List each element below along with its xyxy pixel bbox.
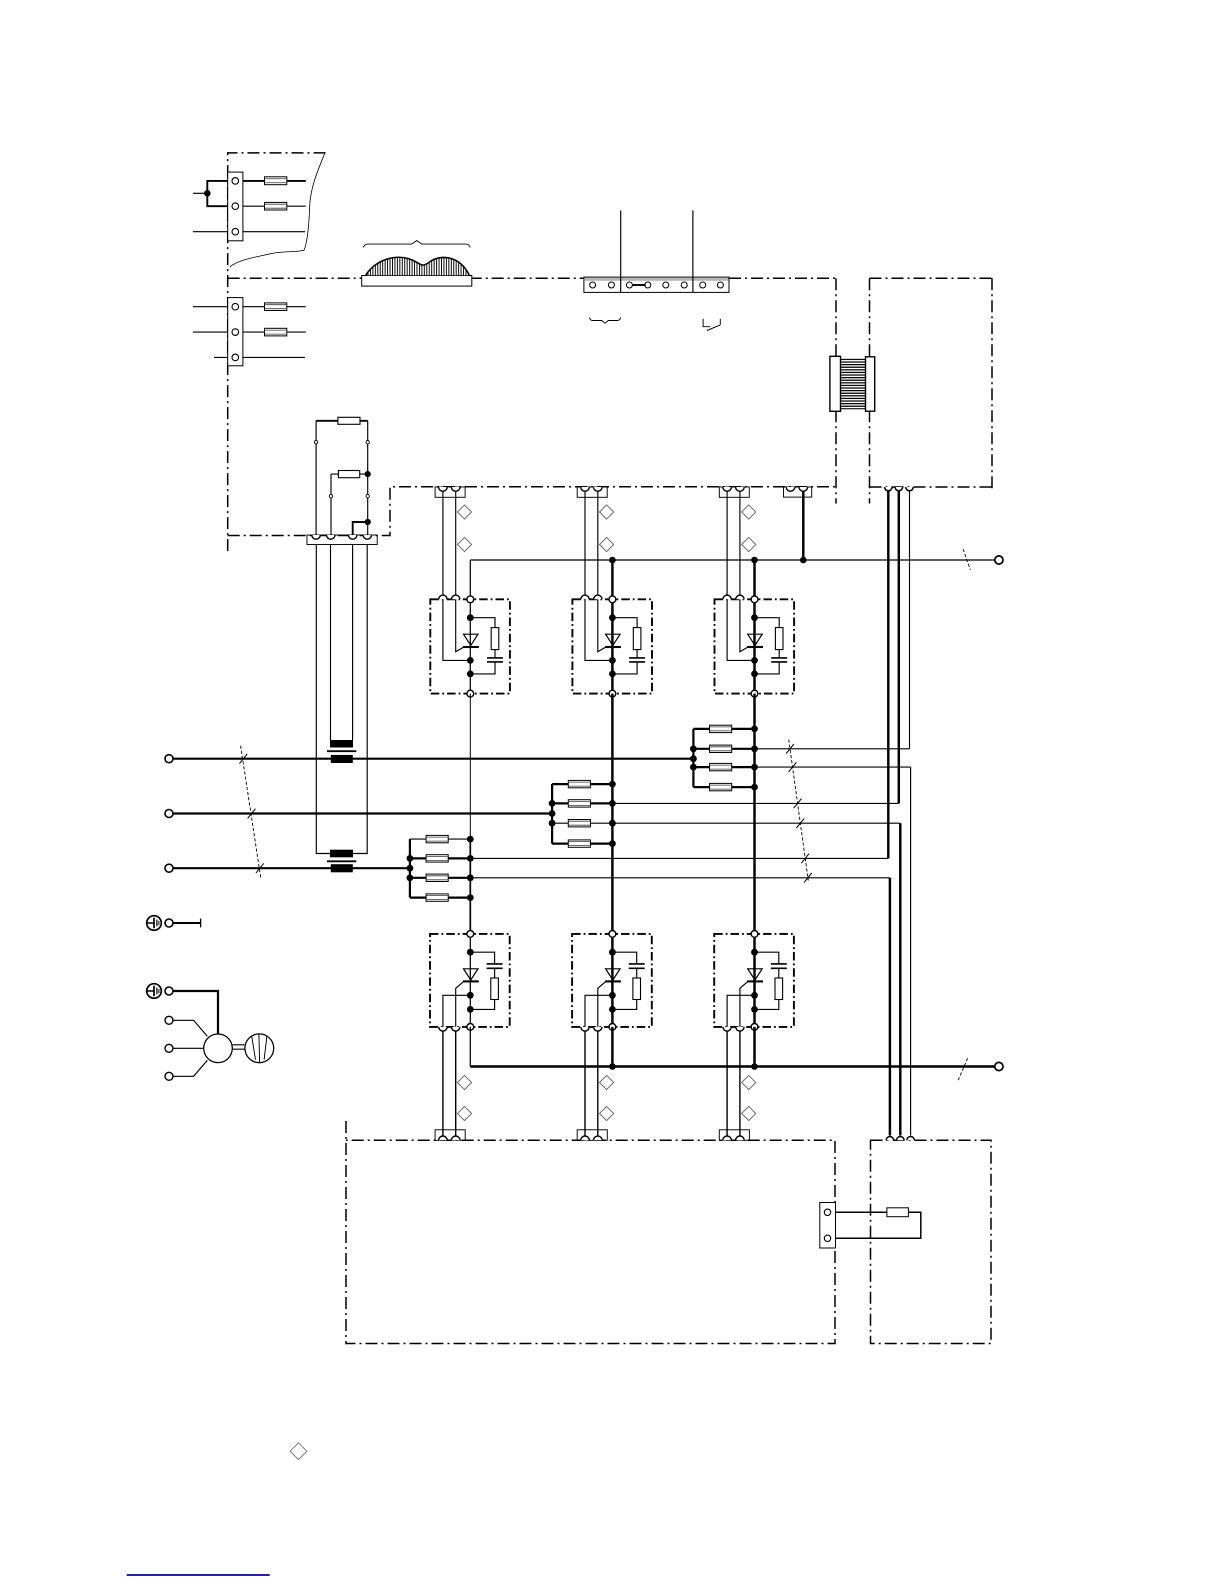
terminal X2:1 <box>590 282 596 288</box>
terminal X2:2 <box>608 282 614 288</box>
contact circle d <box>366 494 369 497</box>
motor terminal b <box>165 1044 173 1052</box>
parallel fuse row 3 wire <box>552 822 613 824</box>
gate lead pin1 down to module V2 <box>584 491 586 595</box>
marker diamond lower <box>600 537 614 551</box>
marker diamond lower-section upper <box>742 1075 756 1089</box>
blue reference line <box>127 1574 270 1576</box>
marker diamond lower-section upper <box>457 1075 471 1089</box>
junction dot rail row2 <box>407 855 414 862</box>
fuse group left rail <box>692 729 694 787</box>
thyristor V symbol <box>748 634 763 645</box>
wire stub into dot <box>193 192 207 194</box>
terminal strip X2 gray top band <box>584 278 728 281</box>
terminal C1+ <box>995 556 1003 564</box>
module pin contact 1 <box>439 595 447 599</box>
connector X21 pin 2 <box>451 1136 460 1140</box>
parallel fuse row 1 wire <box>552 783 613 785</box>
module pin contact 2 <box>736 595 744 599</box>
junction dot snubber return <box>751 671 758 678</box>
cathode aux return lower <box>443 995 470 1027</box>
module pin contact 2 <box>594 595 602 599</box>
bus wire G2 row3 down to X16 <box>899 823 901 1135</box>
PE wire to motor <box>173 991 218 1034</box>
wire CT p2 down <box>330 545 332 740</box>
contact symbol below X2 <box>703 319 720 331</box>
gate lead pin1 down to module V3 <box>726 491 728 595</box>
wire capacitor to resistor <box>778 968 780 978</box>
junction dot rail row2 <box>690 745 697 752</box>
junction dot top branch <box>467 949 474 956</box>
connector X22 housing lower <box>577 1130 607 1141</box>
thyristor cathode bar lower <box>747 980 763 982</box>
junction dot cathode aux <box>467 657 474 664</box>
thyristor V symbol lower <box>606 969 621 980</box>
junction dot snubber return lower <box>609 1006 616 1013</box>
gate lead diagonal lower <box>740 982 748 1027</box>
connector X22 pin 1 <box>581 1136 590 1140</box>
terminal 1U1 <box>165 755 173 763</box>
wire capacitor to resistor <box>636 968 638 978</box>
DC bus lead from X14 to positive rail <box>802 491 804 560</box>
cathode aux return lower <box>727 995 754 1027</box>
snubber capacitor <box>487 657 503 659</box>
resistor R1 <box>338 417 360 424</box>
snubber resistor <box>633 628 641 650</box>
wire L3 through X1 <box>193 231 305 233</box>
enclosure A5 bottom-right cabinet <box>871 1140 992 1343</box>
gate lead pin1 down to X16 <box>584 1031 586 1137</box>
marker diamond upper <box>457 505 471 519</box>
connector X4 pin 4 <box>363 535 371 539</box>
gate lead pin1 down to X16 <box>726 1031 728 1137</box>
terminal D1- <box>995 1062 1003 1070</box>
sense line row3 to right bus <box>470 877 890 879</box>
wire L1 to fuse F1 <box>243 180 306 182</box>
module cathode terminal circle lower <box>609 1024 616 1031</box>
junction dot rail row3 <box>549 820 556 827</box>
cable clamp symbol below X2 <box>589 317 620 323</box>
snubber resistor <box>775 628 783 650</box>
marker diamond lower <box>742 537 756 551</box>
gate lead pin2 down to X16 <box>597 1031 599 1137</box>
connector X16 pins (3-pole) <box>886 1137 894 1141</box>
junction dot cathode aux <box>609 657 616 664</box>
anode feed from DC rail <box>611 560 613 599</box>
junction dot anode branch <box>467 614 474 621</box>
thyristor V symbol <box>464 634 479 645</box>
motor M circle <box>204 1034 233 1063</box>
junction dot center row2 <box>467 855 474 862</box>
snubber branch wire to resistor <box>470 618 495 628</box>
gate lead diagonal <box>598 599 606 652</box>
junction dot V3 anode rail <box>751 557 758 564</box>
enclosure A2 bottom stepped border <box>228 487 836 536</box>
enclosure A2 top border right of strip <box>729 277 836 279</box>
fuse row 1 <box>426 835 448 842</box>
marker diamond lower-section lower <box>742 1106 756 1120</box>
transformer T5 hatched winding <box>841 358 865 409</box>
DC positive rail wire <box>470 559 995 561</box>
wire L1 feed with loop <box>207 181 227 206</box>
resistor R1 leads <box>316 420 368 422</box>
junction dot rail phase entry <box>690 755 697 762</box>
motor terminal c <box>165 1072 173 1080</box>
module anode terminal circle lower <box>609 931 616 938</box>
wire V5 cathode to negative rail <box>611 1027 613 1067</box>
parallel fuse row 2 wire <box>552 802 613 804</box>
busbar hatched hump <box>366 257 470 275</box>
junction dot rail row2 <box>549 800 556 807</box>
wire CT p3 down <box>352 545 354 740</box>
center line below group <box>469 898 471 934</box>
connector X13 pin 1 <box>723 487 732 491</box>
gate lead pin1 down to X16 <box>442 1031 444 1137</box>
module center line lower <box>611 934 613 1027</box>
wire capacitor return <box>470 662 495 674</box>
junction dot anode branch <box>751 614 758 621</box>
enclosure A3 bottom border with connector line <box>870 486 993 488</box>
module cathode terminal circle <box>751 690 758 697</box>
snubber branch to capacitor <box>470 952 494 964</box>
bus wire G1 row3 down to X16 <box>889 878 891 1136</box>
marker diamond lower-section lower <box>600 1106 614 1120</box>
wire resistor return lower <box>470 1000 494 1010</box>
CT T1 core line <box>327 750 356 752</box>
cathode aux return lead <box>443 599 470 660</box>
module anode terminal circle <box>751 596 758 603</box>
sense line row2 to right bus <box>612 802 898 804</box>
module anode terminal circle lower <box>751 931 758 938</box>
fuse group right rail <box>611 784 613 844</box>
snubber branch wire to resistor <box>612 618 637 628</box>
thyristor cathode bar <box>463 646 479 648</box>
junction dot snubber return lower <box>467 1006 474 1013</box>
tacho circle <box>245 1034 274 1063</box>
snubber resistor lower <box>491 978 499 1000</box>
wire CT p4 down with elbow <box>353 545 367 854</box>
wire CT p1 down with elbow <box>316 545 330 854</box>
snubber capacitor lower <box>487 963 503 965</box>
junction dot X14 lead <box>800 557 807 564</box>
junction dot center row3 <box>751 764 758 771</box>
lone marker diamond <box>290 1443 307 1460</box>
connector X14 pin 2 <box>799 487 808 491</box>
cable tick <box>796 818 804 828</box>
phase wire 1U1 <box>173 758 693 760</box>
sense line row2 to right bus <box>755 748 910 750</box>
PE bonding wire 1 <box>173 922 201 924</box>
PE terminal 1 <box>165 919 173 927</box>
connector X4 pin 2 <box>327 535 335 539</box>
parallel fuse row 3 wire <box>693 766 754 768</box>
connector X11 pin 1 <box>439 487 448 491</box>
transformer T5 left plate <box>830 356 841 411</box>
cable tick <box>786 744 794 754</box>
cable break slash at D1- <box>958 1058 967 1080</box>
enclosure A2 converter cabinet top border <box>228 277 584 279</box>
parallel fuse row 2 wire <box>410 857 471 859</box>
PE symbol 2 <box>147 984 162 999</box>
fuse row 4 <box>568 840 590 847</box>
junction dot V5 negative rail <box>609 1063 616 1070</box>
snubber capacitor lower <box>629 963 645 965</box>
snubber capacitor <box>771 657 787 659</box>
thyristor module box <box>572 599 652 693</box>
center line above group <box>469 694 471 840</box>
fuse group right rail <box>753 729 755 787</box>
junction dot R2-R1 right rail <box>365 471 371 477</box>
thyristor cathode bar lower <box>463 980 479 982</box>
motor wire c <box>173 1060 207 1076</box>
elbow wire to pin 3 <box>353 522 368 535</box>
PE terminal 2 <box>165 987 173 995</box>
center line above group <box>753 694 755 729</box>
terminal X1:1 <box>232 178 239 185</box>
connector X4 pin 1 <box>312 535 320 539</box>
junction dot rail phase entry <box>407 865 414 872</box>
thyristor module box lower <box>430 934 510 1027</box>
motor wire a <box>173 1020 207 1036</box>
enclosure A2 right border <box>835 278 837 503</box>
terminal strip X2 body <box>584 277 729 292</box>
module pin contact 1 <box>723 595 731 599</box>
junction dot center row1 <box>467 836 474 843</box>
fuse row 1 <box>568 780 590 787</box>
wire capacitor return <box>755 662 780 674</box>
fuse F3 <box>265 303 287 311</box>
CT T3 secondary bar <box>330 850 353 858</box>
fuse F1 <box>265 177 287 185</box>
terminal X3:1 <box>232 303 239 310</box>
module cathode terminal circle <box>609 690 616 697</box>
junction dot rail row3 <box>407 874 414 881</box>
connector X4 pin 3 <box>349 535 357 539</box>
snubber capacitor lower <box>771 963 787 965</box>
marker diamond upper <box>600 505 614 519</box>
resistor R2 <box>338 471 359 478</box>
DC negative rail wire <box>470 1065 995 1067</box>
junction dot cathode aux lower <box>609 992 616 999</box>
bus wire X15:1 down to G1 row2 <box>887 491 889 858</box>
module center anode line <box>753 599 755 693</box>
wire to fuse F3 <box>193 306 306 308</box>
snubber resistor lower <box>775 978 783 1000</box>
anode feed from DC rail <box>753 560 755 599</box>
terminal X2:4 <box>645 282 651 288</box>
junction dot anode branch <box>609 614 616 621</box>
junction dot V6 negative rail <box>751 1063 758 1070</box>
snubber branch to capacitor <box>755 952 779 964</box>
module pin contact 2 lower <box>452 1027 460 1031</box>
sense line row3 to right bus <box>755 766 911 768</box>
thyristor cathode bar <box>747 646 763 648</box>
gate lead pin2 down to X16 <box>739 1031 741 1137</box>
module cathode terminal circle lower <box>467 1024 474 1031</box>
parallel fuse row 4 wire <box>693 786 754 788</box>
junction dot center row2 <box>751 745 758 752</box>
junction dot on X1 feed <box>204 190 211 197</box>
connector X23 housing lower <box>719 1130 749 1141</box>
connector X12 pin 2 <box>594 487 603 491</box>
fuse row 1 <box>710 725 732 732</box>
enclosure A1 top-left cabinet border <box>228 153 326 553</box>
wire resistor to capacitor <box>494 650 496 658</box>
brace above busbar <box>363 241 470 248</box>
connector X21 pin 1 <box>439 1136 448 1140</box>
gate lead pin2 down to X16 <box>455 1031 457 1137</box>
junction dot cathode aux lower <box>467 992 474 999</box>
fuse group left rail <box>409 839 411 898</box>
wire R1 right leg down <box>367 421 369 535</box>
module anode terminal circle <box>467 596 474 603</box>
terminal X3:3 <box>232 354 239 361</box>
fuse row 4 <box>426 894 448 901</box>
connector X11 pin 2 <box>451 487 460 491</box>
terminal 1V1 <box>165 810 173 818</box>
snubber capacitor <box>629 657 645 659</box>
snubber resistor lower <box>633 978 641 1000</box>
contact circle a <box>314 441 317 444</box>
module pin contact 1 lower <box>581 1027 589 1031</box>
wire to fuse F4 <box>193 331 306 333</box>
connector X12 pin 1 <box>581 487 590 491</box>
terminal X1:2 <box>232 203 239 210</box>
bus wire G3 row3 down to X16 <box>910 767 912 1135</box>
cable tick <box>801 854 809 864</box>
busbar support base <box>362 276 472 287</box>
thyristor module box lower <box>572 934 652 1027</box>
thyristor module box <box>715 599 795 693</box>
module pin contact 2 <box>452 595 460 599</box>
wire R2 left leg down <box>330 474 332 535</box>
gate lead pin2 down to module V2 <box>597 491 599 595</box>
motor wire b <box>173 1047 204 1049</box>
parallel fuse row 4 wire <box>410 896 471 898</box>
enclosure A3 right border <box>991 278 993 489</box>
tacho vanes <box>252 1034 267 1062</box>
tick on phase 2 <box>248 809 256 819</box>
connector X4 housing <box>307 535 377 545</box>
fuse group right rail <box>469 839 471 898</box>
wire up from X2 divider 1 <box>620 210 622 292</box>
tick on phase 1 <box>239 754 247 764</box>
module cathode terminal circle lower <box>751 1024 758 1031</box>
thyristor module box lower <box>714 934 794 1027</box>
gate lead diagonal lower <box>598 982 606 1027</box>
connector X13 housing <box>719 487 749 497</box>
contact circle c <box>329 494 332 497</box>
center line below group <box>611 844 613 934</box>
fuse row 2 <box>710 745 732 752</box>
junction dot center row3 <box>609 820 616 827</box>
connector X21 housing lower <box>435 1130 465 1141</box>
marker diamond lower <box>457 537 471 551</box>
terminal X5:2 <box>824 1235 830 1241</box>
module pin contact 1 <box>581 595 589 599</box>
cable break slash at C1+ <box>963 549 970 570</box>
wire X5:1 to resistor R3 <box>836 1211 887 1213</box>
module center line lower <box>469 934 471 1027</box>
junction dot rail row3 <box>690 764 697 771</box>
CT T3 core line <box>327 860 356 862</box>
snubber branch to capacitor <box>612 952 636 964</box>
cable tick <box>794 799 802 809</box>
PE bar end <box>200 919 202 928</box>
anode feed from DC rail <box>469 560 471 599</box>
wire capacitor to resistor <box>494 968 496 978</box>
terminal X5:1 <box>824 1209 830 1215</box>
connector X22 pin 2 <box>594 1136 603 1140</box>
fuse row 3 <box>568 820 590 827</box>
fuse row 2 <box>568 800 590 807</box>
thyristor V symbol <box>606 634 621 645</box>
junction dot center row2 <box>609 800 616 807</box>
parallel fuse row 2 wire <box>693 748 754 750</box>
parallel fuse row 3 wire <box>410 877 471 879</box>
module anode terminal circle lower <box>467 931 474 938</box>
tick on phase 3 <box>256 863 264 873</box>
wire capacitor return <box>612 662 637 674</box>
connector X14 housing <box>784 487 812 497</box>
phase wire 1W1 <box>173 867 410 869</box>
CT T3 primary bar on phase 3 <box>331 864 353 872</box>
junction dot V2 anode rail <box>609 557 616 564</box>
wire R3 to corner <box>836 1212 921 1238</box>
wire V4 cathode to negative rail <box>469 1027 471 1067</box>
junction dot elbow <box>365 519 371 525</box>
enclosure torn-edge wavy line <box>230 154 325 267</box>
terminal X1:3 <box>232 228 239 235</box>
terminal X2:6 <box>681 282 687 288</box>
module center anode line <box>611 599 613 693</box>
connector X11 housing <box>435 487 465 497</box>
sense line row3 to right bus <box>612 822 900 824</box>
connector X15 pins (3-pole) <box>885 487 893 491</box>
cable tick <box>789 762 797 772</box>
thyristor cathode bar <box>605 646 621 648</box>
terminal X2:3 <box>626 282 632 288</box>
junction dot rail phase entry <box>549 810 556 817</box>
motor terminal a <box>165 1016 173 1024</box>
parallel fuse row 1 wire <box>410 838 471 840</box>
wire V6 cathode to negative rail <box>753 1027 755 1067</box>
module pin contact 2 lower <box>594 1027 602 1031</box>
wire up from X2 divider 2 <box>692 210 694 292</box>
junction dot cathode aux <box>751 657 758 664</box>
fuse F2 <box>265 202 287 210</box>
thyristor V symbol lower <box>748 969 763 980</box>
terminal X3:2 <box>232 329 239 336</box>
terminal block X1 <box>228 172 243 241</box>
fuse row 3 <box>426 874 448 881</box>
junction dot snubber return lower <box>751 1006 758 1013</box>
junction dot center row3 <box>467 874 474 881</box>
center line above group <box>611 694 613 785</box>
terminal block X5 <box>820 1203 836 1249</box>
snubber branch wire to resistor <box>755 618 780 628</box>
junction dot cathode aux lower <box>751 992 758 999</box>
snubber resistor <box>491 628 499 650</box>
CT T1 secondary bar <box>330 740 353 748</box>
enclosure A4 bottom-left cabinet <box>346 1121 835 1344</box>
connector X14 pin 1 <box>786 487 795 491</box>
fuse F4 <box>265 328 287 336</box>
terminal 1W1 <box>165 864 173 872</box>
junction dot snubber return <box>467 671 474 678</box>
wire resistor to capacitor <box>778 650 780 658</box>
wire resistor to capacitor <box>636 650 638 658</box>
